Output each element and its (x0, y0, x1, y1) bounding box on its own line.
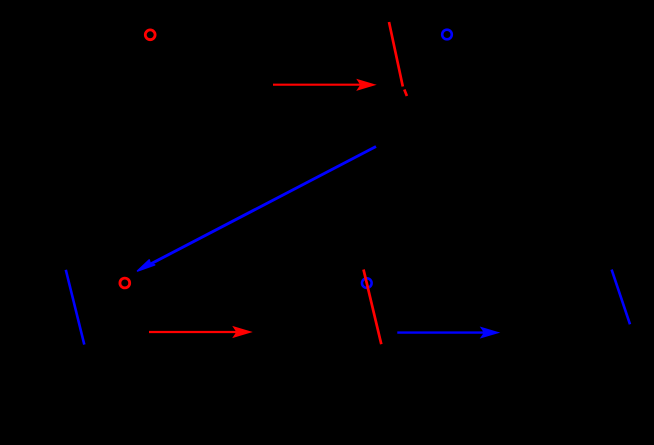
reaction arrow 1 (red, top row) (273, 80, 375, 90)
atom label O3 (red oxygen, bottom-left molecule) (120, 278, 130, 288)
atom label O2 (blue oxygen, top-right molecule) (442, 30, 452, 40)
reaction arrow 3 (blue, bottom row) (397, 327, 498, 337)
atom label O1 (red oxygen, top-left molecule) (145, 30, 155, 40)
atom label O4 (blue oxygen, bottom-middle molecule) (362, 278, 372, 288)
retrosynthesis arrow (long blue diagonal) (138, 147, 377, 272)
bond highlight (red C-O bond, top-right molecule) (389, 22, 407, 96)
reaction arrow 2 (red, bottom row) (149, 327, 251, 337)
bond highlight (red C-O bond, bottom-middle molecule, drawn over O4) (364, 270, 382, 345)
bond highlight (blue C-C bond, bottom-right molecule) (612, 270, 630, 325)
bond highlight (blue C-C bond, bottom-left molecule) (66, 270, 85, 345)
